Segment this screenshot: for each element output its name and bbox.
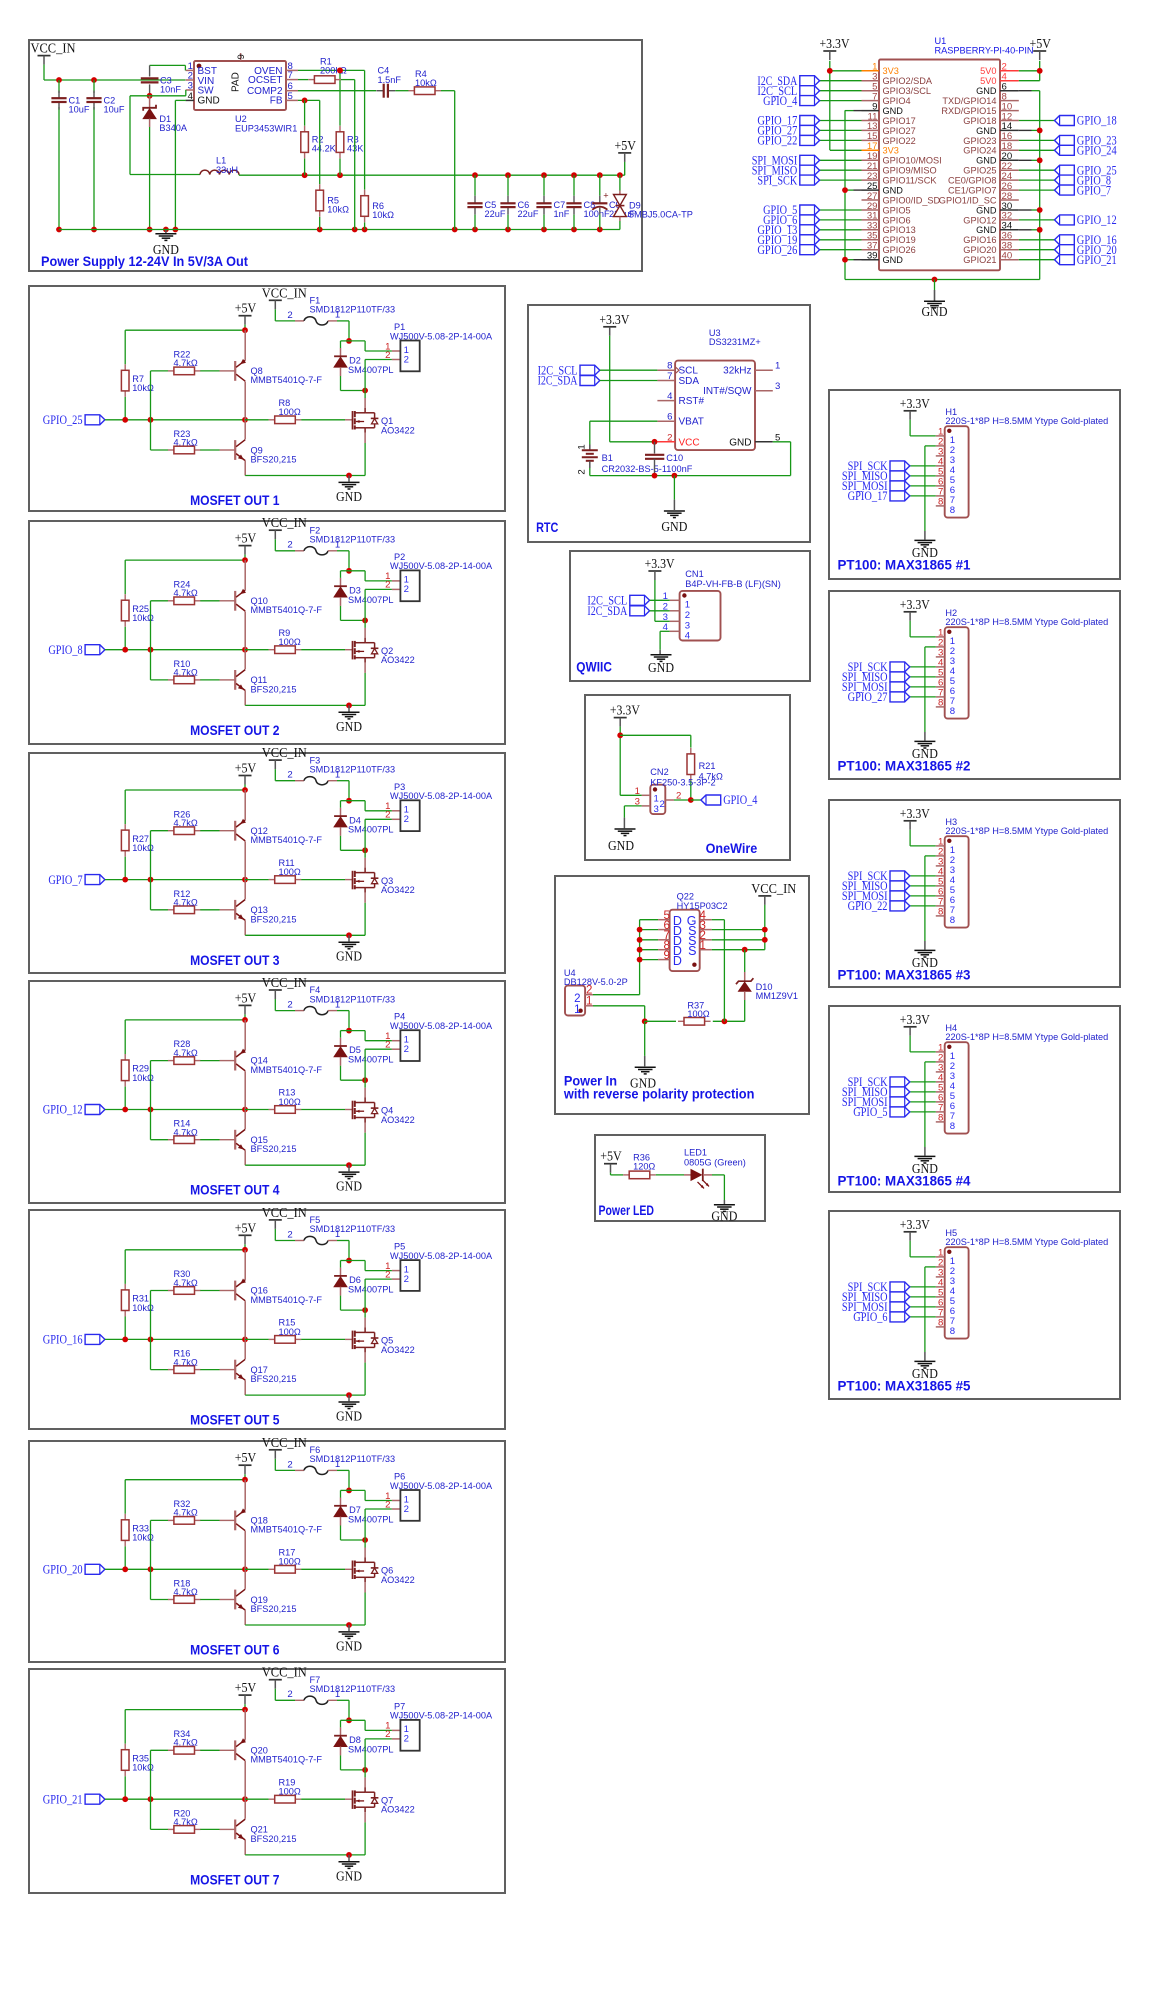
svg-text:GND: GND — [336, 1179, 362, 1194]
svg-text:GPIO_16: GPIO_16 — [43, 1333, 83, 1347]
svg-text:GND: GND — [711, 1208, 737, 1223]
svg-text:0805G (Green): 0805G (Green) — [684, 1157, 746, 1167]
svg-text:VCC_IN: VCC_IN — [262, 515, 307, 530]
svg-text:SM4007PL: SM4007PL — [348, 1744, 393, 1754]
svg-text:2: 2 — [404, 1044, 409, 1055]
svg-text:BFS20,215: BFS20,215 — [251, 1144, 297, 1154]
svg-text:2: 2 — [287, 540, 292, 551]
svg-text:40: 40 — [1002, 251, 1013, 262]
svg-text:2: 2 — [667, 432, 672, 443]
svg-text:CE1/GPIO7: CE1/GPIO7 — [948, 186, 997, 196]
svg-text:3: 3 — [188, 81, 193, 92]
svg-text:GND: GND — [336, 1409, 362, 1424]
svg-text:3V3: 3V3 — [883, 66, 899, 76]
svg-text:GPIO_27: GPIO_27 — [848, 690, 888, 704]
svg-text:100Ω: 100Ω — [279, 1557, 301, 1567]
svg-text:100Ω: 100Ω — [279, 407, 301, 417]
svg-text:GPIO26: GPIO26 — [883, 245, 916, 255]
svg-text:2: 2 — [404, 584, 409, 595]
svg-text:GPIO0/ID_SD: GPIO0/ID_SD — [883, 195, 941, 205]
svg-text:8: 8 — [950, 505, 955, 516]
svg-text:AO3422: AO3422 — [381, 1345, 415, 1355]
svg-text:GND: GND — [883, 255, 904, 265]
svg-text:QWIIC: QWIIC — [576, 659, 612, 675]
svg-text:4: 4 — [685, 630, 691, 641]
svg-text:100Ω: 100Ω — [279, 1327, 301, 1337]
svg-text:GPIO2/SDA: GPIO2/SDA — [883, 76, 933, 86]
svg-text:EUP3453WIR1: EUP3453WIR1 — [235, 124, 297, 134]
svg-text:GPIO_25: GPIO_25 — [43, 413, 83, 427]
svg-text:3V3: 3V3 — [883, 146, 899, 156]
svg-text:2: 2 — [685, 610, 690, 621]
svg-text:SPI_SCK: SPI_SCK — [757, 173, 797, 187]
svg-text:AO3422: AO3422 — [381, 1805, 415, 1815]
svg-text:+: + — [603, 191, 608, 201]
svg-text:4: 4 — [188, 91, 194, 102]
svg-text:1: 1 — [700, 940, 706, 952]
svg-text:SM4007PL: SM4007PL — [348, 1055, 393, 1065]
svg-text:2: 2 — [385, 810, 390, 821]
svg-text:+3.3V: +3.3V — [820, 36, 850, 51]
svg-text:+3.3V: +3.3V — [900, 396, 930, 411]
svg-text:SMD1812P110TF/33: SMD1812P110TF/33 — [310, 1454, 396, 1464]
svg-text:MM1Z9V1: MM1Z9V1 — [756, 991, 798, 1001]
svg-text:GND: GND — [153, 242, 179, 257]
svg-text:+5V: +5V — [235, 761, 257, 776]
svg-text:100Ω: 100Ω — [279, 1787, 301, 1797]
svg-text:GND: GND — [336, 949, 362, 964]
svg-text:BFS20,215: BFS20,215 — [251, 1604, 297, 1614]
svg-text:+3.3V: +3.3V — [900, 806, 930, 821]
svg-text:+3.3V: +3.3V — [900, 597, 930, 612]
svg-text:VCC_IN: VCC_IN — [262, 285, 307, 300]
svg-text:PT100: MAX31865 #5: PT100: MAX31865 #5 — [838, 1377, 971, 1393]
svg-text:SMBJ5.0CA-TP: SMBJ5.0CA-TP — [628, 210, 693, 220]
svg-text:2: 2 — [404, 1504, 409, 1515]
svg-text:FB: FB — [270, 96, 283, 107]
svg-text:220S-1*8P H=8.5MM Ytype Gold-p: 220S-1*8P H=8.5MM Ytype Gold-plated — [945, 826, 1108, 836]
svg-text:2: 2 — [660, 799, 665, 810]
svg-text:GPIO_4: GPIO_4 — [763, 94, 798, 108]
svg-text:1: 1 — [775, 361, 780, 372]
svg-text:GPIO_24: GPIO_24 — [1077, 144, 1118, 158]
svg-text:VCC_IN: VCC_IN — [262, 1205, 307, 1220]
svg-text:GND: GND — [336, 719, 362, 734]
svg-text:WJ500V-5.08-2P-14-00A: WJ500V-5.08-2P-14-00A — [390, 1021, 493, 1031]
svg-text:100Ω: 100Ω — [279, 637, 301, 647]
svg-text:GND: GND — [976, 86, 997, 96]
svg-text:6: 6 — [667, 412, 672, 423]
svg-text:SM4007PL: SM4007PL — [348, 365, 393, 375]
svg-text:GPIO25: GPIO25 — [963, 166, 996, 176]
svg-text:SMD1812P110TF/33: SMD1812P110TF/33 — [310, 1224, 396, 1234]
svg-text:GPIO13: GPIO13 — [883, 225, 916, 235]
svg-text:100Ω: 100Ω — [279, 867, 301, 877]
svg-text:INT#/SQW: INT#/SQW — [703, 386, 752, 397]
svg-text:4.7kΩ: 4.7kΩ — [174, 818, 198, 828]
svg-text:RASPBERRY-PI-40-PIN: RASPBERRY-PI-40-PIN — [935, 46, 1034, 56]
svg-text:GPIO5: GPIO5 — [883, 205, 911, 215]
svg-text:2: 2 — [287, 1689, 292, 1700]
svg-text:GND: GND — [883, 106, 904, 116]
svg-text:GPIO22: GPIO22 — [883, 136, 916, 146]
svg-text:4.7kΩ: 4.7kΩ — [174, 1357, 198, 1367]
svg-text:+5V: +5V — [235, 990, 257, 1005]
svg-text:MOSFET OUT 1: MOSFET OUT 1 — [190, 492, 280, 508]
svg-text:GND: GND — [729, 437, 751, 448]
svg-text:44.2K: 44.2K — [312, 144, 337, 154]
svg-text:Power Supply 12-24V In 5V/3A O: Power Supply 12-24V In 5V/3A Out — [41, 253, 248, 269]
svg-text:VCC_IN: VCC_IN — [31, 41, 76, 56]
svg-text:I2C_SDA: I2C_SDA — [587, 604, 627, 618]
svg-text:RTC: RTC — [536, 519, 558, 535]
svg-text:GPIO19: GPIO19 — [883, 235, 916, 245]
svg-text:LED1: LED1 — [684, 1148, 707, 1158]
svg-text:2: 2 — [404, 814, 409, 825]
svg-text:AO3422: AO3422 — [381, 425, 415, 435]
svg-text:WJ500V-5.08-2P-14-00A: WJ500V-5.08-2P-14-00A — [390, 331, 493, 341]
svg-text:7: 7 — [288, 70, 293, 81]
svg-text:33uH: 33uH — [216, 165, 238, 175]
svg-text:22uF: 22uF — [485, 209, 506, 219]
svg-text:MMBT5401Q-7-F: MMBT5401Q-7-F — [251, 835, 323, 845]
svg-text:8: 8 — [938, 497, 943, 508]
svg-text:MOSFET OUT 3: MOSFET OUT 3 — [190, 952, 280, 968]
svg-text:+5V: +5V — [235, 301, 257, 316]
svg-text:+5V: +5V — [614, 138, 636, 153]
svg-text:RXD/GPIO15: RXD/GPIO15 — [941, 106, 996, 116]
svg-text:PAD: PAD — [231, 72, 242, 92]
svg-text:DS3231MZ+: DS3231MZ+ — [709, 337, 761, 347]
svg-text:GPIO4: GPIO4 — [883, 96, 911, 106]
svg-text:4.7kΩ: 4.7kΩ — [174, 1738, 198, 1748]
svg-text:WJ500V-5.08-2P-14-00A: WJ500V-5.08-2P-14-00A — [390, 1711, 493, 1721]
svg-text:PT100: MAX31865 #4: PT100: MAX31865 #4 — [838, 1172, 971, 1188]
svg-text:220S-1*8P H=8.5MM Ytype Gold-p: 220S-1*8P H=8.5MM Ytype Gold-plated — [945, 1237, 1108, 1247]
svg-text:4.7kΩ: 4.7kΩ — [174, 1127, 198, 1137]
svg-text:GPIO6: GPIO6 — [883, 215, 911, 225]
svg-text:220S-1*8P H=8.5MM Ytype Gold-p: 220S-1*8P H=8.5MM Ytype Gold-plated — [945, 416, 1108, 426]
svg-text:GPIO_12: GPIO_12 — [1077, 213, 1117, 227]
svg-text:100Ω: 100Ω — [279, 1097, 301, 1107]
svg-text:GPIO1/ID_SC: GPIO1/ID_SC — [939, 195, 997, 205]
svg-text:GPIO_26: GPIO_26 — [757, 243, 797, 257]
svg-text:+5V: +5V — [235, 1680, 257, 1695]
svg-text:VCC: VCC — [679, 437, 700, 448]
svg-text:8: 8 — [950, 1326, 955, 1337]
svg-text:SDA: SDA — [679, 376, 700, 387]
svg-text:MOSFET OUT 6: MOSFET OUT 6 — [190, 1642, 280, 1658]
svg-text:4.7kΩ: 4.7kΩ — [174, 1508, 198, 1518]
svg-text:2: 2 — [385, 1040, 390, 1051]
svg-text:43K: 43K — [347, 144, 364, 154]
svg-text:GND: GND — [608, 838, 634, 853]
svg-text:MMBT5401Q-7-F: MMBT5401Q-7-F — [251, 605, 323, 615]
svg-text:GPIO_22: GPIO_22 — [848, 899, 888, 913]
svg-text:5V0: 5V0 — [980, 76, 996, 86]
svg-text:VCC_IN: VCC_IN — [262, 975, 307, 990]
svg-text:3: 3 — [775, 381, 780, 392]
svg-text:GPIO20: GPIO20 — [963, 245, 996, 255]
svg-text:PT100: MAX31865 #2: PT100: MAX31865 #2 — [838, 757, 971, 773]
svg-text:10uF: 10uF — [104, 105, 125, 115]
svg-text:SMD1812P110TF/33: SMD1812P110TF/33 — [310, 305, 396, 315]
svg-text:MOSFET OUT 4: MOSFET OUT 4 — [190, 1182, 280, 1198]
svg-text:GND: GND — [198, 96, 220, 107]
svg-text:GPIO_5: GPIO_5 — [853, 1105, 887, 1119]
svg-text:2: 2 — [404, 1734, 409, 1745]
svg-text:4.7kΩ: 4.7kΩ — [174, 1587, 198, 1597]
svg-text:GND: GND — [976, 156, 997, 166]
svg-text:GPIO_12: GPIO_12 — [43, 1103, 83, 1117]
svg-text:1: 1 — [576, 444, 587, 449]
svg-text:+3.3V: +3.3V — [900, 1217, 930, 1232]
svg-text:GPIO17: GPIO17 — [883, 116, 916, 126]
svg-text:8: 8 — [938, 1318, 943, 1329]
svg-text:PT100: MAX31865 #3: PT100: MAX31865 #3 — [838, 966, 971, 982]
svg-text:MOSFET OUT 7: MOSFET OUT 7 — [190, 1871, 280, 1887]
svg-text:AO3422: AO3422 — [381, 1575, 415, 1585]
svg-text:OCSET: OCSET — [248, 75, 282, 86]
svg-text:+5V: +5V — [235, 531, 257, 546]
svg-text:B340A: B340A — [159, 123, 187, 133]
svg-text:4.7kΩ: 4.7kΩ — [174, 1817, 198, 1827]
svg-text:U2: U2 — [235, 114, 247, 124]
svg-text:+5V: +5V — [600, 1149, 622, 1164]
svg-text:7: 7 — [667, 371, 672, 382]
svg-text:GPIO27: GPIO27 — [883, 126, 916, 136]
svg-text:D: D — [673, 954, 682, 968]
svg-text:4.7kΩ: 4.7kΩ — [174, 1048, 198, 1058]
svg-text:8: 8 — [938, 698, 943, 709]
svg-text:S: S — [688, 944, 696, 958]
svg-text:SM4007PL: SM4007PL — [348, 825, 393, 835]
svg-text:BFS20,215: BFS20,215 — [251, 914, 297, 924]
svg-text:BFS20,215: BFS20,215 — [251, 455, 297, 465]
svg-text:2: 2 — [404, 1274, 409, 1285]
svg-text:2: 2 — [287, 310, 292, 321]
svg-text:4.7kΩ: 4.7kΩ — [174, 898, 198, 908]
svg-text:GPIO12: GPIO12 — [963, 215, 996, 225]
svg-text:VCC_IN: VCC_IN — [262, 1435, 307, 1450]
svg-text:1: 1 — [654, 794, 659, 805]
svg-text:MMBT5401Q-7-F: MMBT5401Q-7-F — [251, 375, 323, 385]
svg-text:1.5nF: 1.5nF — [378, 75, 402, 85]
svg-text:RST#: RST# — [679, 396, 705, 407]
svg-text:with reverse polarity protecti: with reverse polarity protection — [563, 1086, 754, 1102]
svg-text:WJ500V-5.08-2P-14-00A: WJ500V-5.08-2P-14-00A — [390, 561, 493, 571]
svg-text:1: 1 — [586, 996, 592, 1008]
svg-text:4.7kΩ: 4.7kΩ — [174, 668, 198, 678]
svg-text:100nF: 100nF — [584, 209, 610, 219]
svg-text:GPIO23: GPIO23 — [963, 136, 996, 146]
svg-text:4: 4 — [667, 391, 673, 402]
svg-text:AO3422: AO3422 — [381, 655, 415, 665]
svg-text:4.7kΩ: 4.7kΩ — [174, 1278, 198, 1288]
svg-text:10kΩ: 10kΩ — [372, 210, 394, 220]
svg-text:4.7kΩ: 4.7kΩ — [174, 438, 198, 448]
svg-text:GPIO24: GPIO24 — [963, 146, 996, 156]
svg-text:8: 8 — [950, 915, 955, 926]
svg-text:+5V: +5V — [235, 1450, 257, 1465]
svg-text:SM4007PL: SM4007PL — [348, 1285, 393, 1295]
svg-text:I2C_SDA: I2C_SDA — [538, 374, 578, 388]
svg-text:GPIO_21: GPIO_21 — [1077, 253, 1117, 267]
svg-text:8: 8 — [938, 1113, 943, 1124]
svg-text:10nF: 10nF — [160, 85, 181, 95]
svg-text:GPIO_6: GPIO_6 — [853, 1310, 887, 1324]
svg-text:2: 2 — [576, 469, 587, 474]
svg-text:GPIO_18: GPIO_18 — [1077, 114, 1117, 128]
svg-text:AO3422: AO3422 — [381, 885, 415, 895]
svg-text:220S-1*8P H=8.5MM Ytype Gold-p: 220S-1*8P H=8.5MM Ytype Gold-plated — [945, 617, 1108, 627]
svg-text:MMBT5401Q-7-F: MMBT5401Q-7-F — [251, 1065, 323, 1075]
svg-text:GPIO_4: GPIO_4 — [723, 793, 758, 807]
svg-text:AO3422: AO3422 — [381, 1115, 415, 1125]
svg-text:GPIO_8: GPIO_8 — [48, 643, 82, 657]
svg-text:GND: GND — [336, 1638, 362, 1653]
svg-text:5V0: 5V0 — [980, 66, 996, 76]
svg-text:9: 9 — [236, 54, 247, 59]
svg-text:GPIO10/MOSI: GPIO10/MOSI — [883, 156, 942, 166]
svg-text:SM4007PL: SM4007PL — [348, 595, 393, 605]
svg-text:5: 5 — [288, 91, 293, 102]
svg-text:8: 8 — [950, 706, 955, 717]
svg-text:MOSFET OUT 2: MOSFET OUT 2 — [190, 722, 280, 738]
svg-text:+3.3V: +3.3V — [599, 312, 629, 327]
svg-text:SM4007PL: SM4007PL — [348, 1514, 393, 1524]
svg-text:100nF: 100nF — [666, 464, 692, 474]
svg-text:8: 8 — [950, 1121, 955, 1132]
svg-text:1nF: 1nF — [554, 209, 570, 219]
svg-text:CR2032-BS-5-1: CR2032-BS-5-1 — [602, 464, 667, 474]
svg-text:GND: GND — [336, 1868, 362, 1883]
svg-text:B4P-VH-FB-B (LF)(SN): B4P-VH-FB-B (LF)(SN) — [685, 579, 780, 589]
svg-text:GND: GND — [976, 225, 997, 235]
svg-text:KF250-3.5-3P-2: KF250-3.5-3P-2 — [650, 778, 715, 788]
svg-text:+5V: +5V — [1029, 36, 1051, 51]
svg-text:SMD1812P110TF/33: SMD1812P110TF/33 — [310, 994, 396, 1004]
svg-text:2: 2 — [385, 1729, 390, 1740]
svg-text:3: 3 — [654, 804, 659, 815]
svg-text:10kΩ: 10kΩ — [415, 78, 437, 88]
svg-text:GPIO_7: GPIO_7 — [1077, 183, 1111, 197]
svg-text:VCC_IN: VCC_IN — [262, 745, 307, 760]
svg-text:MMBT5401Q-7-F: MMBT5401Q-7-F — [251, 1755, 323, 1765]
svg-text:BFS20,215: BFS20,215 — [251, 684, 297, 694]
svg-text:39: 39 — [867, 251, 878, 262]
svg-text:1: 1 — [685, 599, 690, 610]
svg-text:B1: B1 — [602, 453, 613, 463]
svg-text:2: 2 — [287, 770, 292, 781]
svg-text:GND: GND — [883, 186, 904, 196]
svg-text:+5V: +5V — [235, 1220, 257, 1235]
svg-text:SMD1812P110TF/33: SMD1812P110TF/33 — [310, 535, 396, 545]
svg-text:GPIO9/MISO: GPIO9/MISO — [883, 166, 937, 176]
svg-text:+3.3V: +3.3V — [645, 556, 675, 571]
svg-text:GPIO_17: GPIO_17 — [848, 489, 888, 503]
svg-text:GPIO16: GPIO16 — [963, 235, 996, 245]
svg-text:GND: GND — [661, 519, 687, 534]
svg-text:2: 2 — [385, 350, 390, 361]
svg-text:GPIO3/SCL: GPIO3/SCL — [883, 86, 932, 96]
svg-text:+3.3V: +3.3V — [900, 1012, 930, 1027]
svg-text:GND: GND — [976, 126, 997, 136]
svg-text:2: 2 — [385, 1269, 390, 1280]
svg-text:GPIO_7: GPIO_7 — [48, 873, 82, 887]
svg-text:120Ω: 120Ω — [633, 1161, 655, 1171]
svg-text:MMBT5401Q-7-F: MMBT5401Q-7-F — [251, 1525, 323, 1535]
svg-text:10uF: 10uF — [69, 105, 90, 115]
svg-text:GPIO18: GPIO18 — [963, 116, 996, 126]
svg-text:1: 1 — [574, 1004, 580, 1016]
svg-text:GND: GND — [976, 205, 997, 215]
svg-text:22uF: 22uF — [518, 209, 539, 219]
svg-text:CN1: CN1 — [685, 569, 703, 579]
svg-text:WJ500V-5.08-2P-14-00A: WJ500V-5.08-2P-14-00A — [390, 791, 493, 801]
svg-text:WJ500V-5.08-2P-14-00A: WJ500V-5.08-2P-14-00A — [390, 1251, 493, 1261]
svg-text:VCC_IN: VCC_IN — [262, 1665, 307, 1680]
svg-text:TXD/GPIO14: TXD/GPIO14 — [942, 96, 996, 106]
svg-text:2: 2 — [287, 1459, 292, 1470]
svg-text:WJ500V-5.08-2P-14-00A: WJ500V-5.08-2P-14-00A — [390, 1481, 493, 1491]
svg-text:DB128V-5.0-2P: DB128V-5.0-2P — [564, 977, 628, 987]
svg-text:CN2: CN2 — [650, 767, 668, 777]
svg-text:220S-1*8P H=8.5MM Ytype Gold-p: 220S-1*8P H=8.5MM Ytype Gold-plated — [945, 1032, 1108, 1042]
svg-text:+3.3V: +3.3V — [610, 703, 640, 718]
svg-text:4.7kΩ: 4.7kΩ — [174, 358, 198, 368]
svg-text:GPIO_20: GPIO_20 — [43, 1563, 83, 1577]
svg-text:2: 2 — [385, 580, 390, 591]
svg-text:Power LED: Power LED — [599, 1202, 655, 1218]
svg-text:2: 2 — [287, 1229, 292, 1240]
svg-text:VCC_IN: VCC_IN — [751, 881, 796, 896]
svg-text:R21: R21 — [699, 761, 716, 771]
svg-text:GPIO_22: GPIO_22 — [757, 134, 797, 148]
svg-text:8: 8 — [938, 907, 943, 918]
svg-text:GND: GND — [336, 489, 362, 504]
svg-text:BFS20,215: BFS20,215 — [251, 1834, 297, 1844]
svg-text:MMBT5401Q-7-F: MMBT5401Q-7-F — [251, 1295, 323, 1305]
svg-text:100Ω: 100Ω — [687, 1009, 709, 1019]
svg-text:GPIO11/SCK: GPIO11/SCK — [883, 176, 938, 186]
svg-text:2: 2 — [287, 1000, 292, 1011]
svg-text:32kHz: 32kHz — [723, 366, 751, 377]
svg-text:9: 9 — [663, 950, 669, 962]
svg-text:2: 2 — [385, 1499, 390, 1510]
svg-text:10kΩ: 10kΩ — [327, 205, 349, 215]
svg-text:U1: U1 — [935, 36, 947, 46]
svg-text:SMD1812P110TF/33: SMD1812P110TF/33 — [310, 1684, 396, 1694]
svg-text:CE0/GPIO8: CE0/GPIO8 — [948, 176, 997, 186]
svg-text:GPIO21: GPIO21 — [963, 255, 996, 265]
svg-text:PT100: MAX31865 #1: PT100: MAX31865 #1 — [838, 556, 971, 572]
svg-text:C10: C10 — [666, 453, 683, 463]
svg-text:GND: GND — [648, 660, 674, 675]
svg-text:VBAT: VBAT — [679, 417, 704, 428]
svg-text:GPIO_21: GPIO_21 — [43, 1792, 83, 1806]
svg-text:2: 2 — [404, 354, 409, 365]
svg-text:SMD1812P110TF/33: SMD1812P110TF/33 — [310, 764, 396, 774]
svg-text:OneWire: OneWire — [706, 840, 758, 856]
svg-text:MOSFET OUT 5: MOSFET OUT 5 — [190, 1412, 280, 1428]
svg-text:BFS20,215: BFS20,215 — [251, 1374, 297, 1384]
svg-text:GND: GND — [922, 304, 948, 319]
svg-text:4.7kΩ: 4.7kΩ — [174, 588, 198, 598]
